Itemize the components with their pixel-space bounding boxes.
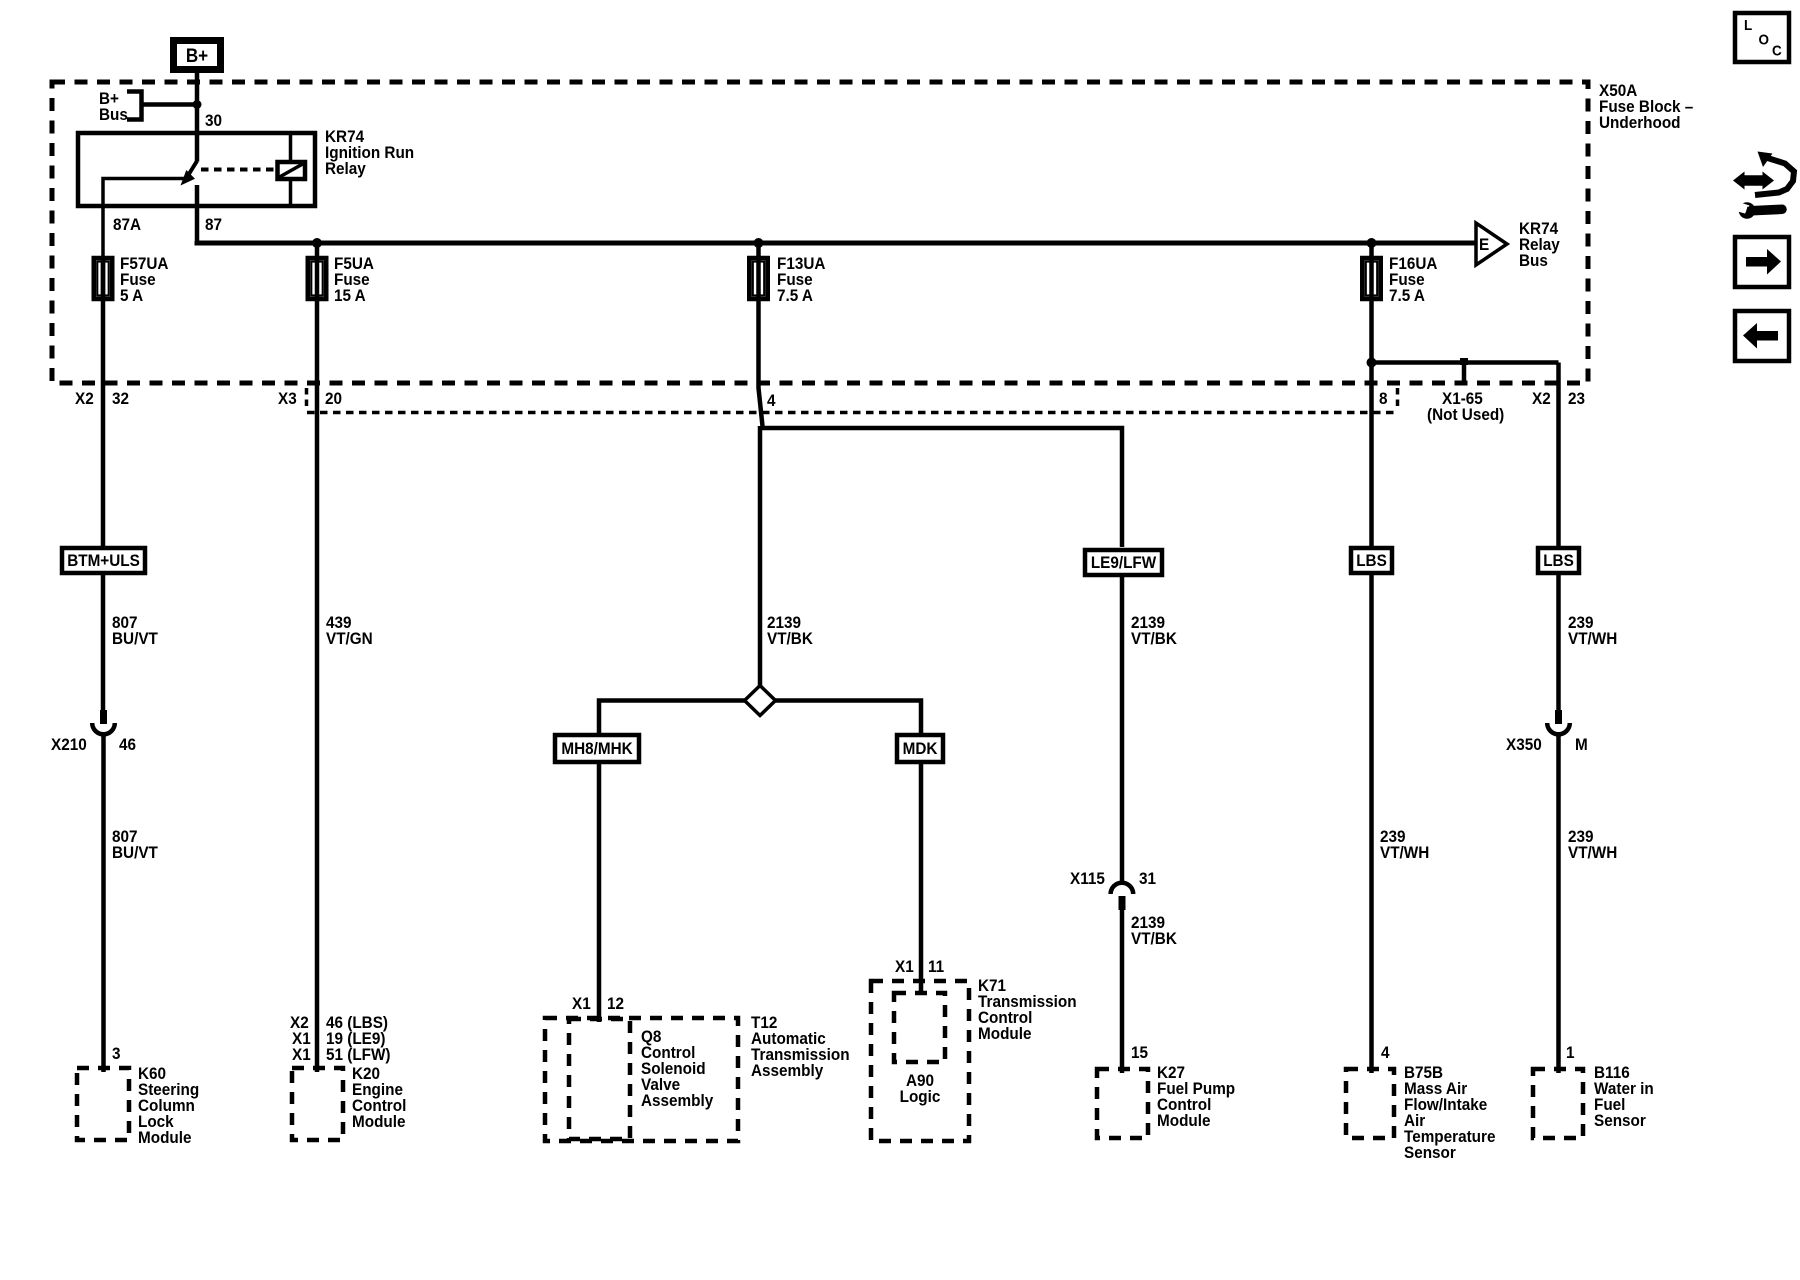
svg-text:VT/BK: VT/BK: [1131, 929, 1177, 948]
component Q8 inner dashed box: [569, 1019, 630, 1139]
svg-text:30: 30: [205, 111, 222, 130]
node box LE9/LFW: [1085, 550, 1162, 575]
svg-text:X2: X2: [75, 389, 94, 408]
svg-text:L: L: [1744, 17, 1753, 34]
relay KR74 box: [78, 133, 315, 206]
fuse F13UA: [749, 243, 768, 301]
relay KR74 coil: [278, 131, 306, 206]
svg-text:MH8/MHK: MH8/MHK: [561, 739, 633, 758]
svg-text:E: E: [1479, 235, 1489, 254]
wire col6 LBS to B75B: [1369, 575, 1374, 1073]
connector row labels X2 23: [1532, 389, 1585, 408]
wire diamond to MDK: [775, 701, 921, 734]
label 2139 VT/BK col5 lower: [1131, 913, 1177, 948]
svg-text:87A: 87A: [113, 215, 141, 234]
svg-text:M: M: [1575, 735, 1588, 754]
svg-text:VT/GN: VT/GN: [326, 629, 373, 648]
connector row labels X3 20: [278, 388, 342, 411]
label 239 VT/WH col6: [1380, 827, 1429, 862]
svg-text:5 A: 5 A: [120, 286, 144, 305]
svg-text:X350: X350: [1506, 735, 1542, 754]
svg-text:BU/VT: BU/VT: [112, 843, 158, 862]
svg-text:Module: Module: [978, 1024, 1032, 1043]
svg-text:7.5 A: 7.5 A: [1389, 286, 1425, 305]
wire B+ down to relay pin 30: [195, 73, 200, 131]
label 239 VT/WH col7 lower: [1568, 827, 1617, 862]
label T12 Automatic Transmission Assembly: [751, 1013, 850, 1080]
relay KR74 switch pin30 stub: [195, 131, 200, 162]
svg-text:31: 31: [1139, 869, 1156, 888]
junction dot B+ bus: [193, 100, 202, 109]
icon vehicle service (arrows, car, wrench): [1733, 152, 1794, 219]
node box BTM+ULS: [62, 548, 145, 573]
label A90 Logic: [900, 1071, 941, 1106]
relay KR74 switch blade: [188, 161, 197, 176]
svg-text:Module: Module: [138, 1128, 192, 1147]
icon LOC box: [1735, 13, 1789, 62]
wire diamond to MH8/MHK: [599, 701, 745, 734]
svg-text:Sensor: Sensor: [1594, 1111, 1646, 1130]
relay KR74 pin 87 wire: [195, 185, 200, 243]
wire col1 below BTM+ULS: [101, 575, 106, 710]
junction dot branch: [1367, 358, 1377, 368]
label B116 Water in Fuel Sensor: [1594, 1063, 1654, 1130]
svg-text:(Not Used): (Not Used): [1427, 405, 1504, 424]
label 439 VT/GN: [326, 613, 373, 648]
svg-text:Sensor: Sensor: [1404, 1143, 1456, 1162]
svg-text:4: 4: [767, 391, 776, 410]
node box MH8/MHK: [555, 735, 639, 762]
label KR74 Relay Bus: [1519, 219, 1560, 270]
wire col5 LE9/LFW to X115: [1120, 575, 1125, 884]
relay KR74 contact 87A wire: [103, 179, 184, 257]
svg-text:X115: X115: [1070, 869, 1105, 888]
svg-text:87: 87: [205, 215, 222, 234]
label K71 Transmission Control Module: [978, 976, 1077, 1043]
svg-text:46: 46: [119, 735, 136, 754]
inline connector X115: [1111, 883, 1134, 1073]
svg-text:BU/VT: BU/VT: [112, 629, 158, 648]
label 2139 VT/BK col3: [767, 613, 813, 648]
fuse F16UA: [1362, 243, 1381, 301]
pin labels X1 11: [895, 957, 944, 976]
label F57UA Fuse 5 A: [120, 254, 169, 305]
component B75B dashed box: [1346, 1069, 1394, 1138]
svg-text:C: C: [1772, 43, 1782, 60]
svg-text:VT/BK: VT/BK: [767, 629, 813, 648]
svg-text:1: 1: [1566, 1043, 1575, 1062]
svg-text:O: O: [1759, 32, 1769, 49]
icon arrow right box: [1735, 237, 1789, 287]
fuse block X50A dashed box: [52, 82, 1588, 383]
label F13UA Fuse 7.5 A: [777, 254, 826, 305]
svg-text:51 (LFW): 51 (LFW): [326, 1045, 391, 1064]
node box LBS col7: [1538, 548, 1579, 573]
splice diamond: [745, 686, 776, 716]
label K60 Steering Column Lock Module: [138, 1064, 199, 1147]
label X1-65 (Not Used): [1427, 389, 1504, 424]
svg-text:MDK: MDK: [903, 739, 938, 758]
svg-text:X1: X1: [572, 994, 591, 1013]
svg-text:11: 11: [928, 957, 944, 976]
label 807 BU/VT lower: [112, 827, 158, 862]
svg-text:X1: X1: [292, 1045, 311, 1064]
svg-text:Module: Module: [352, 1112, 406, 1131]
wire col7 LBS to X350: [1556, 575, 1561, 710]
label X350 M: [1506, 735, 1588, 754]
svg-text:B+: B+: [186, 45, 208, 66]
component K20 dashed box: [292, 1068, 343, 1140]
svg-text:4: 4: [1381, 1043, 1390, 1062]
pin labels K20: X2 46 (LBS) / X1 19 (LE9) / X1 51 (LFW): [290, 1013, 391, 1064]
svg-text:Bus: Bus: [99, 105, 128, 124]
svg-text:15 A: 15 A: [334, 286, 366, 305]
svg-text:20: 20: [325, 389, 342, 408]
junction dot F16UA: [1367, 238, 1377, 248]
component B116 dashed box: [1533, 1069, 1583, 1138]
label 2139 VT/BK col5: [1131, 613, 1177, 648]
svg-text:23: 23: [1568, 389, 1585, 408]
wire MDK down to A90: [919, 764, 924, 992]
svg-text:X1: X1: [895, 957, 914, 976]
svg-text:7.5 A: 7.5 A: [777, 286, 813, 305]
svg-text:X2: X2: [1532, 389, 1551, 408]
component A90 inner dashed box: [894, 993, 945, 1062]
component K27 dashed box: [1097, 1069, 1148, 1138]
label X50A Fuse Block - Underhood: [1599, 81, 1693, 132]
svg-text:32: 32: [112, 389, 129, 408]
svg-text:Relay: Relay: [325, 159, 366, 178]
svg-text:8: 8: [1379, 389, 1388, 408]
svg-text:Module: Module: [1157, 1111, 1211, 1130]
svg-text:LE9/LFW: LE9/LFW: [1091, 553, 1157, 572]
node box MDK: [897, 735, 943, 762]
svg-text:15: 15: [1131, 1043, 1148, 1062]
stub X1-65 not used: [1460, 358, 1468, 382]
pin labels X1 12: [572, 994, 624, 1013]
label Q8 Control Solenoid Valve Assembly: [641, 1027, 713, 1110]
wire col2 fuse to K20: [315, 301, 320, 1072]
inline connector X210: [92, 710, 115, 1072]
component K60 dashed box: [77, 1068, 129, 1140]
label KR74 Ignition Run Relay: [325, 127, 414, 178]
svg-text:Underhood: Underhood: [1599, 113, 1681, 132]
connector pin 8: [1379, 388, 1398, 411]
wire col7 down to LBS: [1556, 363, 1561, 547]
label K27 Fuel Pump Control Module: [1157, 1063, 1235, 1130]
wire branch col3 to col5: [761, 428, 1122, 547]
svg-text:Assembly: Assembly: [641, 1091, 713, 1110]
component K71 outer dashed box: [871, 981, 969, 1141]
svg-text:X210: X210: [51, 735, 87, 754]
label B75B Mass Air Flow/Intake Air Temperature Sensor: [1404, 1063, 1495, 1162]
junction dot F13UA: [754, 238, 764, 248]
svg-text:LBS: LBS: [1356, 551, 1387, 570]
svg-text:VT/WH: VT/WH: [1568, 629, 1617, 648]
svg-text:Logic: Logic: [900, 1087, 941, 1106]
node box LBS col6: [1351, 548, 1392, 573]
connector row labels X2 32: [75, 389, 129, 408]
wire branch col6 to col7: [1372, 360, 1559, 365]
svg-text:3: 3: [112, 1044, 121, 1063]
inline connector X350: [1547, 710, 1570, 1073]
relay bus output triangle E: [1476, 223, 1507, 265]
svg-text:VT/WH: VT/WH: [1568, 843, 1617, 862]
component T12 outer dashed box: [545, 1018, 738, 1141]
svg-text:LBS: LBS: [1543, 551, 1574, 570]
label K20 Engine Control Module: [352, 1064, 406, 1131]
svg-text:BTM+ULS: BTM+ULS: [67, 551, 140, 570]
label F16UA Fuse 7.5 A: [1389, 254, 1438, 305]
label X210 46: [51, 735, 136, 754]
svg-text:Bus: Bus: [1519, 251, 1548, 270]
svg-text:Assembly: Assembly: [751, 1061, 823, 1080]
svg-text:VT/BK: VT/BK: [1131, 629, 1177, 648]
svg-text:12: 12: [607, 994, 624, 1013]
svg-text:X3: X3: [278, 389, 297, 408]
wire col1 fuse to BTM+ULS: [101, 301, 106, 547]
label 807 BU/VT upper: [112, 613, 158, 648]
wire col3 fuse down with jog: [759, 301, 763, 686]
thin dashed connector line: [307, 411, 1397, 415]
label 239 VT/WH col7 upper: [1568, 613, 1617, 648]
wire relay bus horizontal: [197, 241, 1476, 243]
label X115 31: [1070, 869, 1156, 888]
relay KR74 coil dashed link: [201, 168, 276, 172]
wire MH8/MHK down to Q8: [597, 764, 602, 1022]
label F5UA Fuse 15 A: [334, 254, 374, 305]
icon arrow left box: [1735, 311, 1789, 361]
power symbol B+: [174, 41, 221, 70]
node B+ Bus: [99, 89, 197, 124]
fuse F5UA: [308, 243, 327, 301]
svg-text:VT/WH: VT/WH: [1380, 843, 1429, 862]
fuse F57UA: [94, 256, 113, 301]
junction dot F5UA: [312, 238, 322, 248]
wire col6 fuse to branch junction: [1369, 301, 1374, 546]
